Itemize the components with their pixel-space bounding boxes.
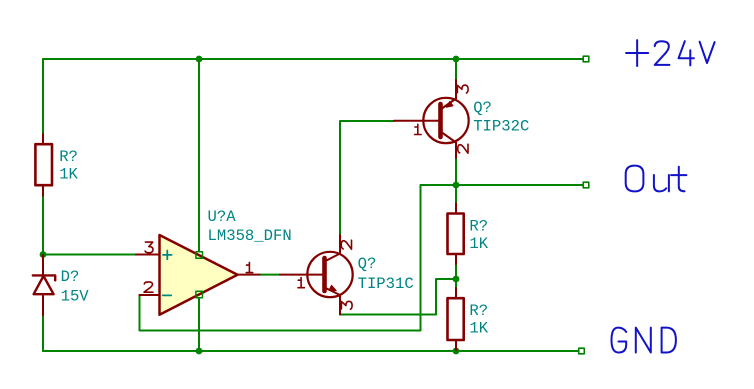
resistor R2 pins — [455, 204, 457, 265]
svg-text:TIP31C: TIP31C — [358, 275, 414, 293]
transistor Q2 circle — [423, 98, 468, 143]
transistor Q2 pin number 3 — [457, 85, 468, 93]
svg-text:R?: R? — [469, 217, 488, 235]
op-amp U1 minus mark — [163, 294, 172, 296]
wire top +24V rail — [43, 58, 583, 60]
op-amp U1 pin number 2 — [144, 282, 153, 292]
transistor Q1 pin number 3 — [341, 301, 352, 309]
op-amp U1 V+ power pin square — [196, 252, 203, 259]
wire Out — [456, 184, 583, 186]
wire power vertical lower (from op-amp V-) — [198, 298, 200, 351]
zener D1 cathode bar — [33, 275, 55, 280]
transistor Q1 base bar — [322, 258, 327, 291]
label +24V — [626, 40, 715, 66]
transistor Q2 base lead inside — [423, 120, 440, 122]
transistor Q1 circle — [307, 252, 352, 297]
op-amp U1 V- power pin square — [196, 291, 203, 298]
wire Q2 emitter stub — [455, 59, 457, 80]
resistor R3 body — [448, 298, 464, 340]
wire divider vertical — [455, 185, 457, 351]
op-amp U1 triangle body — [160, 235, 238, 315]
op-amp U1 pin 2 lead — [140, 294, 160, 296]
wire left rail lower segment — [42, 315, 44, 351]
wire Q1 collector to Q2 base — [340, 121, 394, 235]
transistor Q1 emitter — [325, 288, 341, 315]
op-amp U1 pin 3 lead — [136, 254, 160, 256]
svg-text:R?: R? — [59, 148, 78, 166]
junction Out node — [453, 182, 460, 189]
transistor Q1 pin number 1 — [298, 278, 304, 288]
op-amp U1 pin 1 lead — [238, 274, 260, 276]
svg-text:R?: R? — [469, 302, 488, 320]
transistor Q1 emitter arrow — [329, 285, 336, 290]
svg-text:1K: 1K — [469, 235, 488, 253]
transistor Q1 base lead — [280, 274, 325, 276]
svg-text:1K: 1K — [59, 166, 78, 184]
wire left rail mid segment — [42, 196, 44, 257]
wire feedback Out to inverting input — [140, 185, 457, 331]
transistor Q1 pin number 2 — [341, 240, 351, 249]
resistor R3 pins — [455, 288, 457, 350]
junction left rail at zener node — [40, 251, 47, 258]
transistor Q2 emitter arrow (points to bar) — [446, 101, 453, 107]
svg-text:1K: 1K — [469, 320, 488, 338]
svg-text:15V: 15V — [61, 288, 90, 306]
terminal square GND — [579, 348, 585, 354]
transistor Q2 pin number 2 — [458, 144, 468, 153]
wire Q1 emitter to divider midpoint — [340, 279, 456, 315]
resistor R1 body — [35, 144, 52, 185]
junction divider midpoint — [453, 276, 460, 283]
zener D1 pins — [42, 255, 44, 316]
transistor Q2 base bar — [438, 104, 443, 137]
op-amp U1 pin number 1 — [246, 262, 252, 272]
terminal square +24V — [583, 56, 589, 62]
svg-text:D?: D? — [61, 268, 80, 286]
junction GND rail at power vertical — [196, 348, 203, 355]
wire bottom GND rail — [43, 350, 579, 352]
transistor Q2 base lead — [394, 120, 441, 122]
svg-text:Q?: Q? — [473, 99, 492, 117]
wire left rail upper segment — [42, 59, 44, 134]
wire op-amp output to Q1 base — [260, 274, 281, 276]
svg-text:TIP32C: TIP32C — [473, 117, 529, 135]
transistor Q2 collector — [441, 132, 457, 159]
transistor Q1 base lead inside — [307, 274, 325, 276]
terminal square Out — [583, 182, 589, 188]
junction top rail at Q2 emitter — [453, 56, 460, 63]
op-amp U1 plus mark — [163, 251, 172, 260]
transistor Q1 collector — [325, 235, 341, 262]
wire power vertical upper (to op-amp V+) — [198, 59, 200, 252]
transistor Q2 pin number 1 — [415, 124, 421, 134]
svg-text:U?A: U?A — [208, 208, 237, 226]
label GND — [612, 328, 676, 353]
op-amp U1 pin number 3 — [145, 242, 153, 253]
junction top rail at power vertical — [196, 56, 203, 63]
label Out — [626, 166, 687, 192]
svg-text:LM358_DFN: LM358_DFN — [208, 227, 292, 245]
resistor R1 pins — [42, 134, 44, 196]
svg-text:Q?: Q? — [358, 255, 377, 273]
junction GND rail at divider — [453, 348, 460, 355]
resistor R2 body — [448, 214, 464, 255]
transistor Q2 emitter — [441, 80, 457, 110]
zener D1 triangle — [34, 276, 54, 294]
wire Q2 collector stub — [455, 158, 457, 185]
wire noninverting input — [43, 254, 136, 256]
